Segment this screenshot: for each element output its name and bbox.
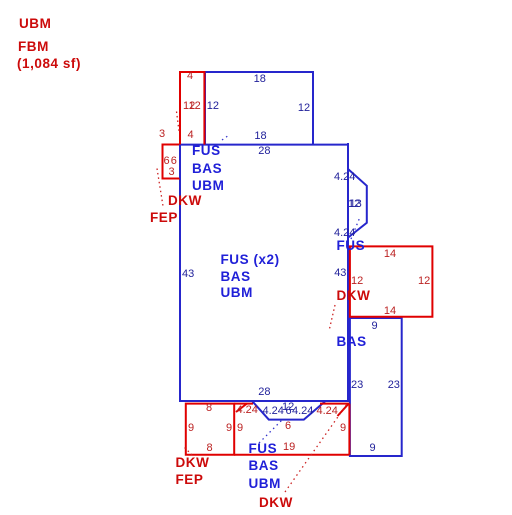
dim 4 top red rect <box>187 71 193 82</box>
deck corner diagonal right <box>338 404 349 416</box>
deck bottom-left rect (8x9) <box>186 404 234 455</box>
leader dotted DKW bottom-center <box>285 404 347 492</box>
room BAS bottom-right rect (9x23) <box>350 318 402 456</box>
dim 3 above small rect <box>159 129 165 140</box>
deck corner diagonal left <box>236 404 247 413</box>
wall main bottom <box>180 400 348 402</box>
bay bottom trapezoid <box>253 402 325 420</box>
label DKW right <box>337 289 371 303</box>
deck bottom-center outline <box>234 404 349 455</box>
dim 4.24 trapezoid right blue <box>292 406 313 417</box>
dim 23 BAS right <box>388 380 400 391</box>
wall main right <box>347 143 349 402</box>
label FUS right-bay <box>337 239 366 253</box>
dim 4.24 bay bottom <box>334 228 355 239</box>
dim 12/13 bay (overlap) <box>348 199 360 210</box>
dim 9 deck right <box>340 423 346 434</box>
dim 12 trapezoid blue <box>282 402 294 413</box>
legend FBM <box>18 40 49 54</box>
leader dotted FEP bottom-left <box>183 446 192 455</box>
dim 19 deck bottom <box>283 442 295 453</box>
dim 18 bottom of top rect <box>254 131 266 142</box>
dim 14 right rect bottom <box>384 306 396 317</box>
wall top-rect blue (18x12) <box>205 72 313 145</box>
wall main left <box>179 143 181 402</box>
label BAS bottom <box>249 459 279 473</box>
dim 23 BAS left <box>351 380 363 391</box>
legend area (1,084 sf) <box>17 57 81 71</box>
label FUS (x2) center <box>221 253 280 267</box>
dim 6 trapezoid blue <box>286 406 292 417</box>
dim 4.24 deck left red <box>237 405 258 416</box>
dim 12 red (double) <box>183 101 195 112</box>
label BAS right <box>337 335 367 349</box>
label DKW bottom-left <box>176 456 210 470</box>
dim 9 BAS top <box>372 321 378 332</box>
leader dotted FUS bottom <box>259 419 283 443</box>
label UBM bottom <box>249 477 281 491</box>
deck right rect red (14x12) <box>350 246 433 316</box>
label BAS center <box>221 270 251 284</box>
label UBM top-left <box>192 179 224 193</box>
leader dotted FUS top-left <box>222 135 229 140</box>
dim 43 right wall <box>334 268 346 279</box>
dim 9 bottom-left rect right <box>226 423 232 434</box>
dim 43 left wall <box>182 269 194 280</box>
leader dotted FUS right-bay <box>351 217 360 239</box>
label UBM center <box>221 286 253 300</box>
dim 4 bottom of red rect <box>188 130 194 141</box>
dim 12 right rect left <box>351 276 363 287</box>
leader dotted DKW left <box>177 112 180 132</box>
legend UBM <box>19 17 51 31</box>
bay window right <box>348 169 367 238</box>
dim 9 bottom-left rect left <box>188 423 194 434</box>
wall main top <box>180 144 348 146</box>
label FEP bottom-left <box>176 473 204 487</box>
dim 28 main top <box>258 146 270 157</box>
dim 3 small rect <box>169 167 175 178</box>
dim 9 BAS bottom <box>370 443 376 454</box>
label DKW bottom-center <box>259 496 293 510</box>
dim 18 top <box>254 74 266 85</box>
dim 8 bottom-left rect bottom <box>207 443 213 454</box>
label DKW left <box>168 194 202 208</box>
label BAS top-left <box>192 162 222 176</box>
dim 66 small rect (double) <box>164 156 170 167</box>
leader dotted FEP left <box>157 169 163 207</box>
deck small-left rect (3x6) <box>163 145 181 179</box>
dim 12 blue left of top rect <box>207 101 219 112</box>
label FUS bottom <box>249 442 278 456</box>
dim 12 right of top rect <box>298 103 310 114</box>
label FUS top-left <box>192 144 221 158</box>
dim 14 right rect top <box>384 249 396 260</box>
label FEP left <box>150 211 178 225</box>
dim 4.24 bay top <box>334 172 355 183</box>
leader dotted DKW right <box>329 305 335 331</box>
dim 9 deck left <box>237 423 243 434</box>
dim 12 right rect right <box>418 276 430 287</box>
deck top-rect red (4x12) <box>180 72 204 145</box>
dim 4.24 trapezoid left blue <box>263 406 284 417</box>
dim 28 main bottom <box>258 387 270 398</box>
wall small-rect right (blue over) <box>179 145 181 179</box>
dim 6 deck center red <box>285 421 291 432</box>
dim 8 bottom-left rect top <box>206 403 212 414</box>
dim 4.24 deck right red <box>317 406 338 417</box>
